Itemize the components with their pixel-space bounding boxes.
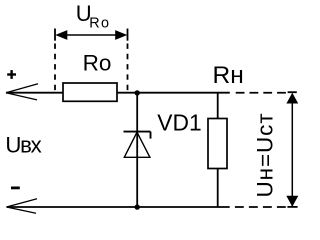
wire input to resistor Ro: [6, 92, 63, 94]
dashed wire top to dimension arrow: [236, 92, 287, 94]
plus terminal sign: [7, 70, 16, 79]
label U_Ro: [76, 1, 111, 32]
minus terminal sign: [11, 186, 20, 189]
zener diode VD1: [124, 132, 151, 158]
input terminal arrow top: [6, 84, 38, 100]
resistor Rн: [208, 119, 227, 169]
wire resistor Rн to bottom wire: [217, 169, 219, 208]
resistor Ro: [63, 83, 117, 101]
dashed wire bottom to dimension arrow: [235, 206, 286, 208]
extension dashed line left: [54, 44, 56, 93]
bottom wire: [7, 206, 230, 208]
input terminal arrow bottom: [7, 199, 38, 214]
svg-text:Ro: Ro: [89, 16, 110, 32]
node B junction dot bottom: [135, 204, 140, 209]
node A junction dot top: [135, 90, 140, 95]
svg-text:Rн: Rн: [213, 62, 244, 89]
svg-text:Uн=Uст: Uн=Uст: [253, 112, 278, 197]
svg-text:VD1: VD1: [157, 109, 201, 135]
wire zener branch: [136, 93, 138, 207]
wire resistor Ro to node A: [117, 92, 230, 94]
extension dashed line right: [127, 44, 129, 93]
svg-text:Ro: Ro: [83, 50, 112, 75]
svg-text:Uвх: Uвх: [5, 133, 41, 158]
dimension arrow U_Ro: [55, 29, 128, 41]
wire node A to resistor Rн: [217, 93, 219, 119]
dimension arrow Uн=Uст: [286, 92, 298, 207]
